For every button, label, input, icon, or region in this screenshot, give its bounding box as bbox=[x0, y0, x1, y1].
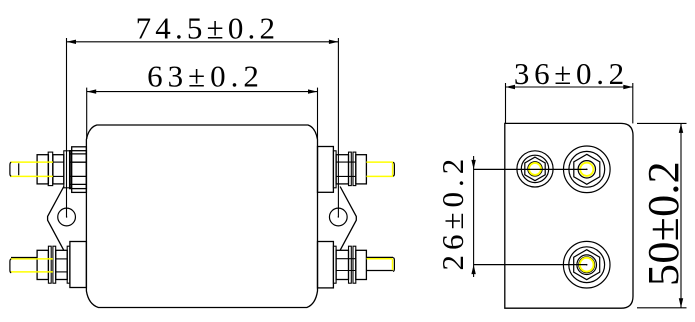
dimension line 74.5 bbox=[67, 41, 339, 43]
svg-text:26±0.2: 26±0.2 bbox=[435, 154, 470, 271]
dimension line 26 bbox=[473, 156, 475, 277]
dimension line 63 bbox=[87, 91, 318, 93]
svg-text:50±0.2: 50±0.2 bbox=[639, 161, 688, 286]
center dot bottom hole bbox=[586, 264, 588, 266]
leader line 26 top bbox=[474, 168, 587, 170]
mounting hole left bbox=[58, 208, 76, 226]
terminal top-right nut bbox=[356, 155, 367, 184]
terminal bottom-left pin top edge bbox=[11, 257, 37, 259]
terminal bottom-right pin outline bbox=[366, 257, 393, 270]
terminal bottom-right outer washers bbox=[349, 246, 356, 283]
terminal top-right outer washers bbox=[349, 152, 356, 186]
terminal hole bottom (large) bbox=[563, 241, 610, 288]
terminal top-right faston pin (yellow) bbox=[366, 162, 392, 176]
svg-text:63±0.2: 63±0.2 bbox=[147, 58, 264, 93]
terminal top-left outer washer bbox=[48, 152, 53, 186]
terminal top-left base block bbox=[70, 147, 87, 193]
terminal hole top-left (small) bbox=[517, 151, 553, 187]
terminal bottom-right base block bbox=[318, 242, 334, 288]
extension line 63 right bbox=[317, 88, 319, 139]
terminal bottom-left pin end cap bbox=[10, 259, 11, 273]
terminal bottom-right pin end cap bbox=[393, 258, 394, 272]
terminal top-right pin end cap bbox=[393, 162, 394, 176]
arrow 50 top bbox=[679, 123, 683, 132]
arrow 50 bottom bbox=[679, 298, 683, 308]
leader line 26 bottom bbox=[474, 264, 587, 266]
mounting tab left bbox=[48, 187, 64, 251]
terminal bottom-left base block bbox=[70, 242, 87, 288]
terminal hole top-right (large) bbox=[564, 146, 611, 193]
terminal top-right hex body bbox=[336, 155, 356, 184]
terminal top-left inner washer bbox=[64, 151, 71, 188]
arrow 26 top bbox=[471, 160, 475, 170]
side view case outline bbox=[505, 123, 633, 308]
dimension line 50 bbox=[680, 123, 682, 307]
arrow 63 right bbox=[308, 89, 318, 93]
terminal bottom-left hex body bbox=[56, 250, 67, 279]
extension line 50 top bbox=[637, 122, 687, 124]
extension line 36 right bbox=[632, 83, 634, 123]
svg-text:74.5±0.2: 74.5±0.2 bbox=[136, 11, 280, 46]
terminal bottom-left faston pin (yellow) bbox=[10, 259, 53, 272]
terminal bottom-right hex body bbox=[336, 250, 356, 279]
extension line 74.5 right bbox=[337, 38, 339, 217]
terminal bottom-right faston pin (yellow) bbox=[367, 259, 393, 270]
terminal bottom-left nut bbox=[37, 250, 48, 279]
arrow 36 right bbox=[623, 85, 633, 89]
terminal bottom-left outer washers bbox=[48, 246, 55, 283]
terminal top-left faston pin (yellow) bbox=[10, 162, 53, 176]
arrow 36 left bbox=[506, 85, 516, 89]
terminal bottom-left inner washer bbox=[67, 246, 70, 283]
arrow 63 left bbox=[87, 89, 97, 93]
arrow 26 bottom bbox=[471, 265, 475, 275]
terminal bottom-right nut bbox=[356, 250, 367, 279]
arrow 74.5 right bbox=[329, 40, 339, 44]
terminal top-left hex body bbox=[53, 155, 64, 184]
terminal top-left nut bbox=[37, 155, 48, 184]
svg-text:36±0.2: 36±0.2 bbox=[514, 56, 629, 91]
terminal top-right base block bbox=[318, 147, 334, 193]
extension line 74.5 left bbox=[66, 38, 68, 217]
extension line 63 left bbox=[86, 88, 88, 139]
terminal top-left pin end cap bbox=[10, 162, 19, 176]
terminal bottom-right inner washer bbox=[333, 246, 336, 283]
filter body outline bbox=[86, 125, 317, 308]
terminal top-right inner washer bbox=[333, 151, 336, 188]
mounting hole right bbox=[329, 208, 347, 226]
dimension line 36 bbox=[506, 86, 633, 88]
center dot top-right hole bbox=[586, 169, 588, 171]
extension line 50 bottom bbox=[637, 307, 687, 309]
arrow 74.5 left bbox=[67, 40, 77, 44]
mounting tab right bbox=[340, 187, 356, 251]
extension line 36 left bbox=[505, 83, 507, 123]
